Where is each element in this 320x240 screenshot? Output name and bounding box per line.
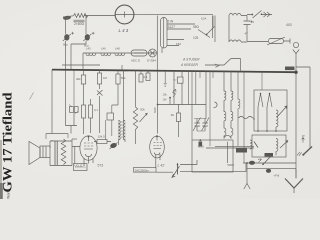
svg-text:Gw: Gw [173,80,177,82]
svg-text:L45: L45 [86,47,91,51]
svg-text:2×80Ω: 2×80Ω [74,22,85,26]
svg-text:DAC5500m: DAC5500m [135,168,150,172]
svg-text:1W: 1W [163,98,167,102]
svg-text:L 4 3: L 4 3 [119,28,129,33]
svg-text:L48: L48 [115,47,120,51]
svg-text:+250: +250 [198,145,205,149]
svg-text:0,1: 0,1 [144,75,148,79]
svg-text:403: 403 [286,23,292,27]
svg-text:10k 5: 10k 5 [98,135,106,139]
svg-text:50k: 50k [140,108,145,112]
svg-text:UCL11: UCL11 [75,163,83,167]
svg-text:+Filt: +Filt [274,174,280,178]
svg-text:50μ: 50μ [63,43,68,47]
svg-text:5127: 5127 [168,25,176,29]
svg-text:0,1: 0,1 [94,108,98,112]
svg-text:5 W: 5 W [168,20,174,24]
svg-text:1M: 1M [103,76,108,80]
svg-text:ADC D: ADC D [131,59,140,63]
svg-text:GW 17 Tiefland: GW 17 Tiefland [0,92,15,193]
svg-text:55Ω: 55Ω [193,25,200,29]
svg-text:DY584: DY584 [147,59,156,63]
svg-text:150: 150 [176,42,181,46]
svg-text:5000: 5000 [153,107,157,113]
svg-text:A KREGER: A KREGER [180,63,199,67]
svg-text:L46: L46 [101,47,106,51]
svg-text:125: 125 [193,36,199,40]
svg-text:5000: 5000 [227,163,234,167]
svg-text:3Ω: 3Ω [171,113,175,117]
svg-text:10A: 10A [201,17,206,21]
svg-text:A STUDER: A STUDER [182,58,200,62]
svg-text:50k: 50k [121,76,126,80]
svg-text:47: 47 [245,32,249,36]
svg-text:40k: 40k [76,77,81,81]
svg-text:+4: +4 [251,20,255,24]
svg-text:573: 573 [98,164,104,168]
svg-text:L 42: L 42 [158,164,165,168]
svg-text:10k: 10k [163,93,168,97]
